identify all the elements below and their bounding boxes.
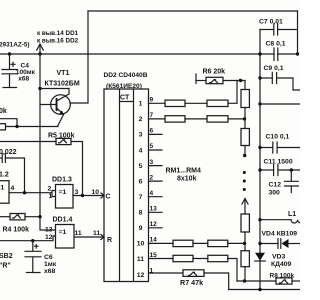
chip pin number labels right side	[150, 97, 158, 275]
ellipsis continuation dots	[243, 171, 246, 174]
svg-text:11: 11	[75, 230, 82, 237]
svg-text:9: 9	[150, 97, 154, 104]
junction dot C11/C12	[290, 168, 293, 171]
svg-text:12: 12	[150, 221, 158, 228]
wire DD1.2 output to DD1.3 inputs	[9, 191, 56, 197]
svg-text:2: 2	[150, 174, 154, 181]
resistor row pin7 (RM b)	[149, 118, 166, 120]
junction dot C6/reset wire	[31, 239, 34, 242]
resistor row pin15 (RM d)	[149, 258, 174, 260]
svg-text:10: 10	[92, 189, 100, 196]
svg-text:к выв.14 DD1: к выв.14 DD1	[37, 30, 79, 37]
svg-text:6: 6	[150, 128, 154, 135]
svg-text:SB2: SB2	[0, 253, 13, 260]
svg-text:=1: =1	[59, 189, 67, 196]
resistor R8 100k	[276, 278, 292, 284]
logic element DD1.3	[56, 185, 74, 209]
svg-text:VD4 КВ109: VD4 КВ109	[262, 231, 298, 238]
svg-text:2: 2	[139, 116, 143, 123]
junction dot rail/collector feed	[38, 87, 41, 90]
svg-text:4: 4	[150, 190, 154, 197]
wire supply rail y=54 left part	[0, 53, 274, 55]
svg-text:3: 3	[150, 159, 154, 166]
svg-text:8: 8	[139, 210, 143, 217]
svg-text:КД409: КД409	[271, 261, 292, 268]
svg-text:х68: х68	[44, 268, 56, 275]
svg-text:R6 20k: R6 20k	[203, 69, 226, 76]
diode VD3 KD409	[255, 253, 265, 261]
junction dot chain row7	[243, 117, 246, 120]
svg-text:7: 7	[150, 112, 154, 119]
resistor R6 20k	[195, 74, 197, 84]
svg-text:3: 3	[75, 189, 79, 196]
junction dot chain bottom	[243, 279, 246, 282]
wire pin12 from reset node	[0, 236, 56, 241]
svg-text:14: 14	[150, 237, 158, 244]
svg-text:8x10k: 8x10k	[177, 176, 197, 183]
svg-text:"R": "R"	[0, 263, 11, 270]
wire supply rail y=54 right part after C8	[278, 53, 298, 55]
wire collector feed y=88.5	[40, 88, 69, 90]
svg-text:1: 1	[150, 268, 154, 275]
junction dot chain row14	[243, 242, 246, 245]
svg-text:2: 2	[48, 186, 52, 193]
svg-text:2931AZ-5): 2931AZ-5)	[0, 42, 30, 49]
logic element DD1.4	[56, 225, 75, 249]
svg-text:4: 4	[11, 185, 15, 192]
wire bottom y=281 with R8	[237, 280, 276, 282]
wire bottom y=289.5	[229, 289, 300, 291]
junction dot chain end upper	[243, 154, 246, 157]
svg-text:12: 12	[45, 234, 53, 241]
resistor row pin14 (RM c)	[149, 242, 174, 244]
junction dot right vertical / supply	[296, 52, 299, 55]
junction dot rail/C9 wire	[258, 76, 261, 79]
resistor R5 100k	[0, 141, 56, 143]
resistor R4 100k	[0, 216, 10, 218]
svg-text:DD2 CD4040В: DD2 CD4040В	[104, 72, 148, 79]
svg-text:4: 4	[139, 147, 143, 154]
svg-text:12: 12	[137, 272, 145, 279]
junction dot rail/wire y104	[258, 102, 261, 105]
svg-text:5: 5	[150, 143, 154, 150]
svg-text:к выв.16 DD2: к выв.16 DD2	[37, 38, 79, 45]
resistor R3 partial at left edge	[0, 124, 6, 130]
svg-text:C10 0,1: C10 0,1	[266, 134, 290, 141]
junction dot supply/stub	[38, 52, 41, 55]
svg-text:(К561ИЕ20): (К561ИЕ20)	[106, 83, 142, 90]
junction dot R4/rail	[38, 215, 41, 218]
svg-text:L1: L1	[288, 211, 296, 218]
svg-text:3: 3	[139, 132, 143, 139]
wire top rail y=11	[88, 10, 298, 12]
svg-text:5: 5	[139, 163, 143, 170]
node supply stub arrow to pin14 DD1 pin16 DD2	[39, 45, 41, 54]
capacitor C12 300	[290, 170, 292, 181]
svg-text:1: 1	[49, 193, 53, 200]
junction dot rail/L1 wire	[258, 218, 261, 221]
junction dot R6 node	[239, 79, 242, 82]
svg-text:13: 13	[45, 227, 53, 234]
capacitor C9 0,1	[260, 77, 272, 79]
svg-text:R7 47k: R7 47k	[180, 278, 203, 287]
wire y=104 to edge	[260, 103, 300, 105]
resistor row pin9 (RM a)	[149, 102, 166, 104]
divider chain vertical resistor 2	[244, 119, 246, 129]
junction dot emitter node	[15, 125, 18, 128]
svg-text:R4 100k: R4 100k	[3, 227, 30, 234]
svg-text:11: 11	[137, 256, 144, 263]
capacitor C10 0,1	[260, 147, 273, 149]
svg-text:13: 13	[150, 206, 158, 213]
svg-text:1.2: 1.2	[0, 172, 9, 179]
svg-text:х68: х68	[18, 76, 29, 83]
chip inner output numbers 1-12	[137, 101, 145, 279]
svg-text:9: 9	[139, 225, 143, 232]
svg-text:CT: CT	[120, 95, 130, 102]
capacitor C7 0,01	[260, 29, 274, 31]
svg-text:КТ3102БМ: КТ3102БМ	[45, 81, 80, 88]
logic element DD1.2	[0, 181, 9, 204]
capacitor C11 1500	[260, 169, 274, 171]
junction dot C5/DD1.2 out	[23, 191, 26, 194]
wire R3 to emitter node	[6, 126, 59, 128]
svg-text:VT1: VT1	[57, 70, 70, 77]
svg-text:DD1.4: DD1.4	[53, 216, 73, 223]
svg-text:0k: 0k	[0, 108, 7, 115]
wire vertical x=88 top rail to collector	[70, 11, 88, 103]
svg-text:C7 0,01: C7 0,01	[259, 19, 283, 26]
junction dot rail/supply	[258, 52, 261, 55]
chain resume arrow	[242, 199, 248, 205]
svg-text:7: 7	[139, 194, 143, 201]
svg-text:C8 0,1: C8 0,1	[266, 41, 286, 48]
wire DD1.3 output to DD2 C	[73, 195, 104, 197]
junction dot supply/C4	[8, 52, 11, 55]
svg-text:R5 100k: R5 100k	[48, 133, 75, 140]
svg-text:RM1...RM4: RM1...RM4	[166, 168, 202, 175]
transistor VT1 KT3102BM	[40, 89, 70, 127]
svg-text:DD1.3: DD1.3	[52, 176, 72, 183]
junction dot rail/VD4 wire	[258, 242, 261, 245]
svg-text:R: R	[107, 237, 112, 244]
wire DD1.4 output to DD2 R	[74, 236, 104, 238]
wire right vertical x=297.5	[297, 11, 299, 54]
junction dot R5/DD1.3 out	[81, 194, 84, 197]
svg-text:С6: С6	[44, 254, 53, 261]
capacitor C4 electrolytic	[9, 54, 11, 69]
wire upper stub into node	[0, 119, 17, 127]
svg-text:6: 6	[139, 178, 143, 185]
wire right rail x=260	[259, 30, 261, 290]
wire rail x=40 down to DD1.4 pin13	[40, 54, 56, 230]
svg-text:10: 10	[137, 241, 145, 248]
capacitor C6 electrolytic	[32, 241, 34, 251]
divider chain vertical resistor 4	[244, 243, 246, 250]
svg-text:C9 0,1: C9 0,1	[264, 65, 284, 72]
svg-text:11: 11	[93, 230, 100, 237]
svg-text:=1: =1	[0, 185, 4, 192]
inductor L1	[260, 219, 291, 221]
capacitor C8 0,1 in supply wire	[274, 48, 278, 61]
IC DD2 CD4040B K561IE20 counter	[101, 89, 149, 282]
junction dot rail end	[258, 288, 261, 291]
divider chain vertical resistor 3	[241, 214, 249, 232]
svg-text:1: 1	[139, 101, 143, 108]
resistor R7 47k row pin1	[149, 272, 184, 274]
svg-text:VD3: VD3	[272, 253, 285, 260]
junction dot rail/C10 wire	[258, 146, 261, 149]
svg-text:300: 300	[269, 190, 281, 197]
chip unused pin stubs rows 3-9	[149, 134, 163, 227]
junction dot rail/C11 wire	[258, 168, 261, 171]
svg-text:C12: C12	[269, 182, 282, 189]
divider chain vertical resistor 1	[244, 81, 246, 90]
svg-text:C: C	[106, 194, 111, 201]
svg-text:R8 100k: R8 100k	[270, 272, 295, 279]
svg-text:C11 1500: C11 1500	[264, 159, 293, 166]
svg-text:=1: =1	[59, 229, 67, 236]
diode VD4 KB109 varicap	[260, 243, 278, 245]
